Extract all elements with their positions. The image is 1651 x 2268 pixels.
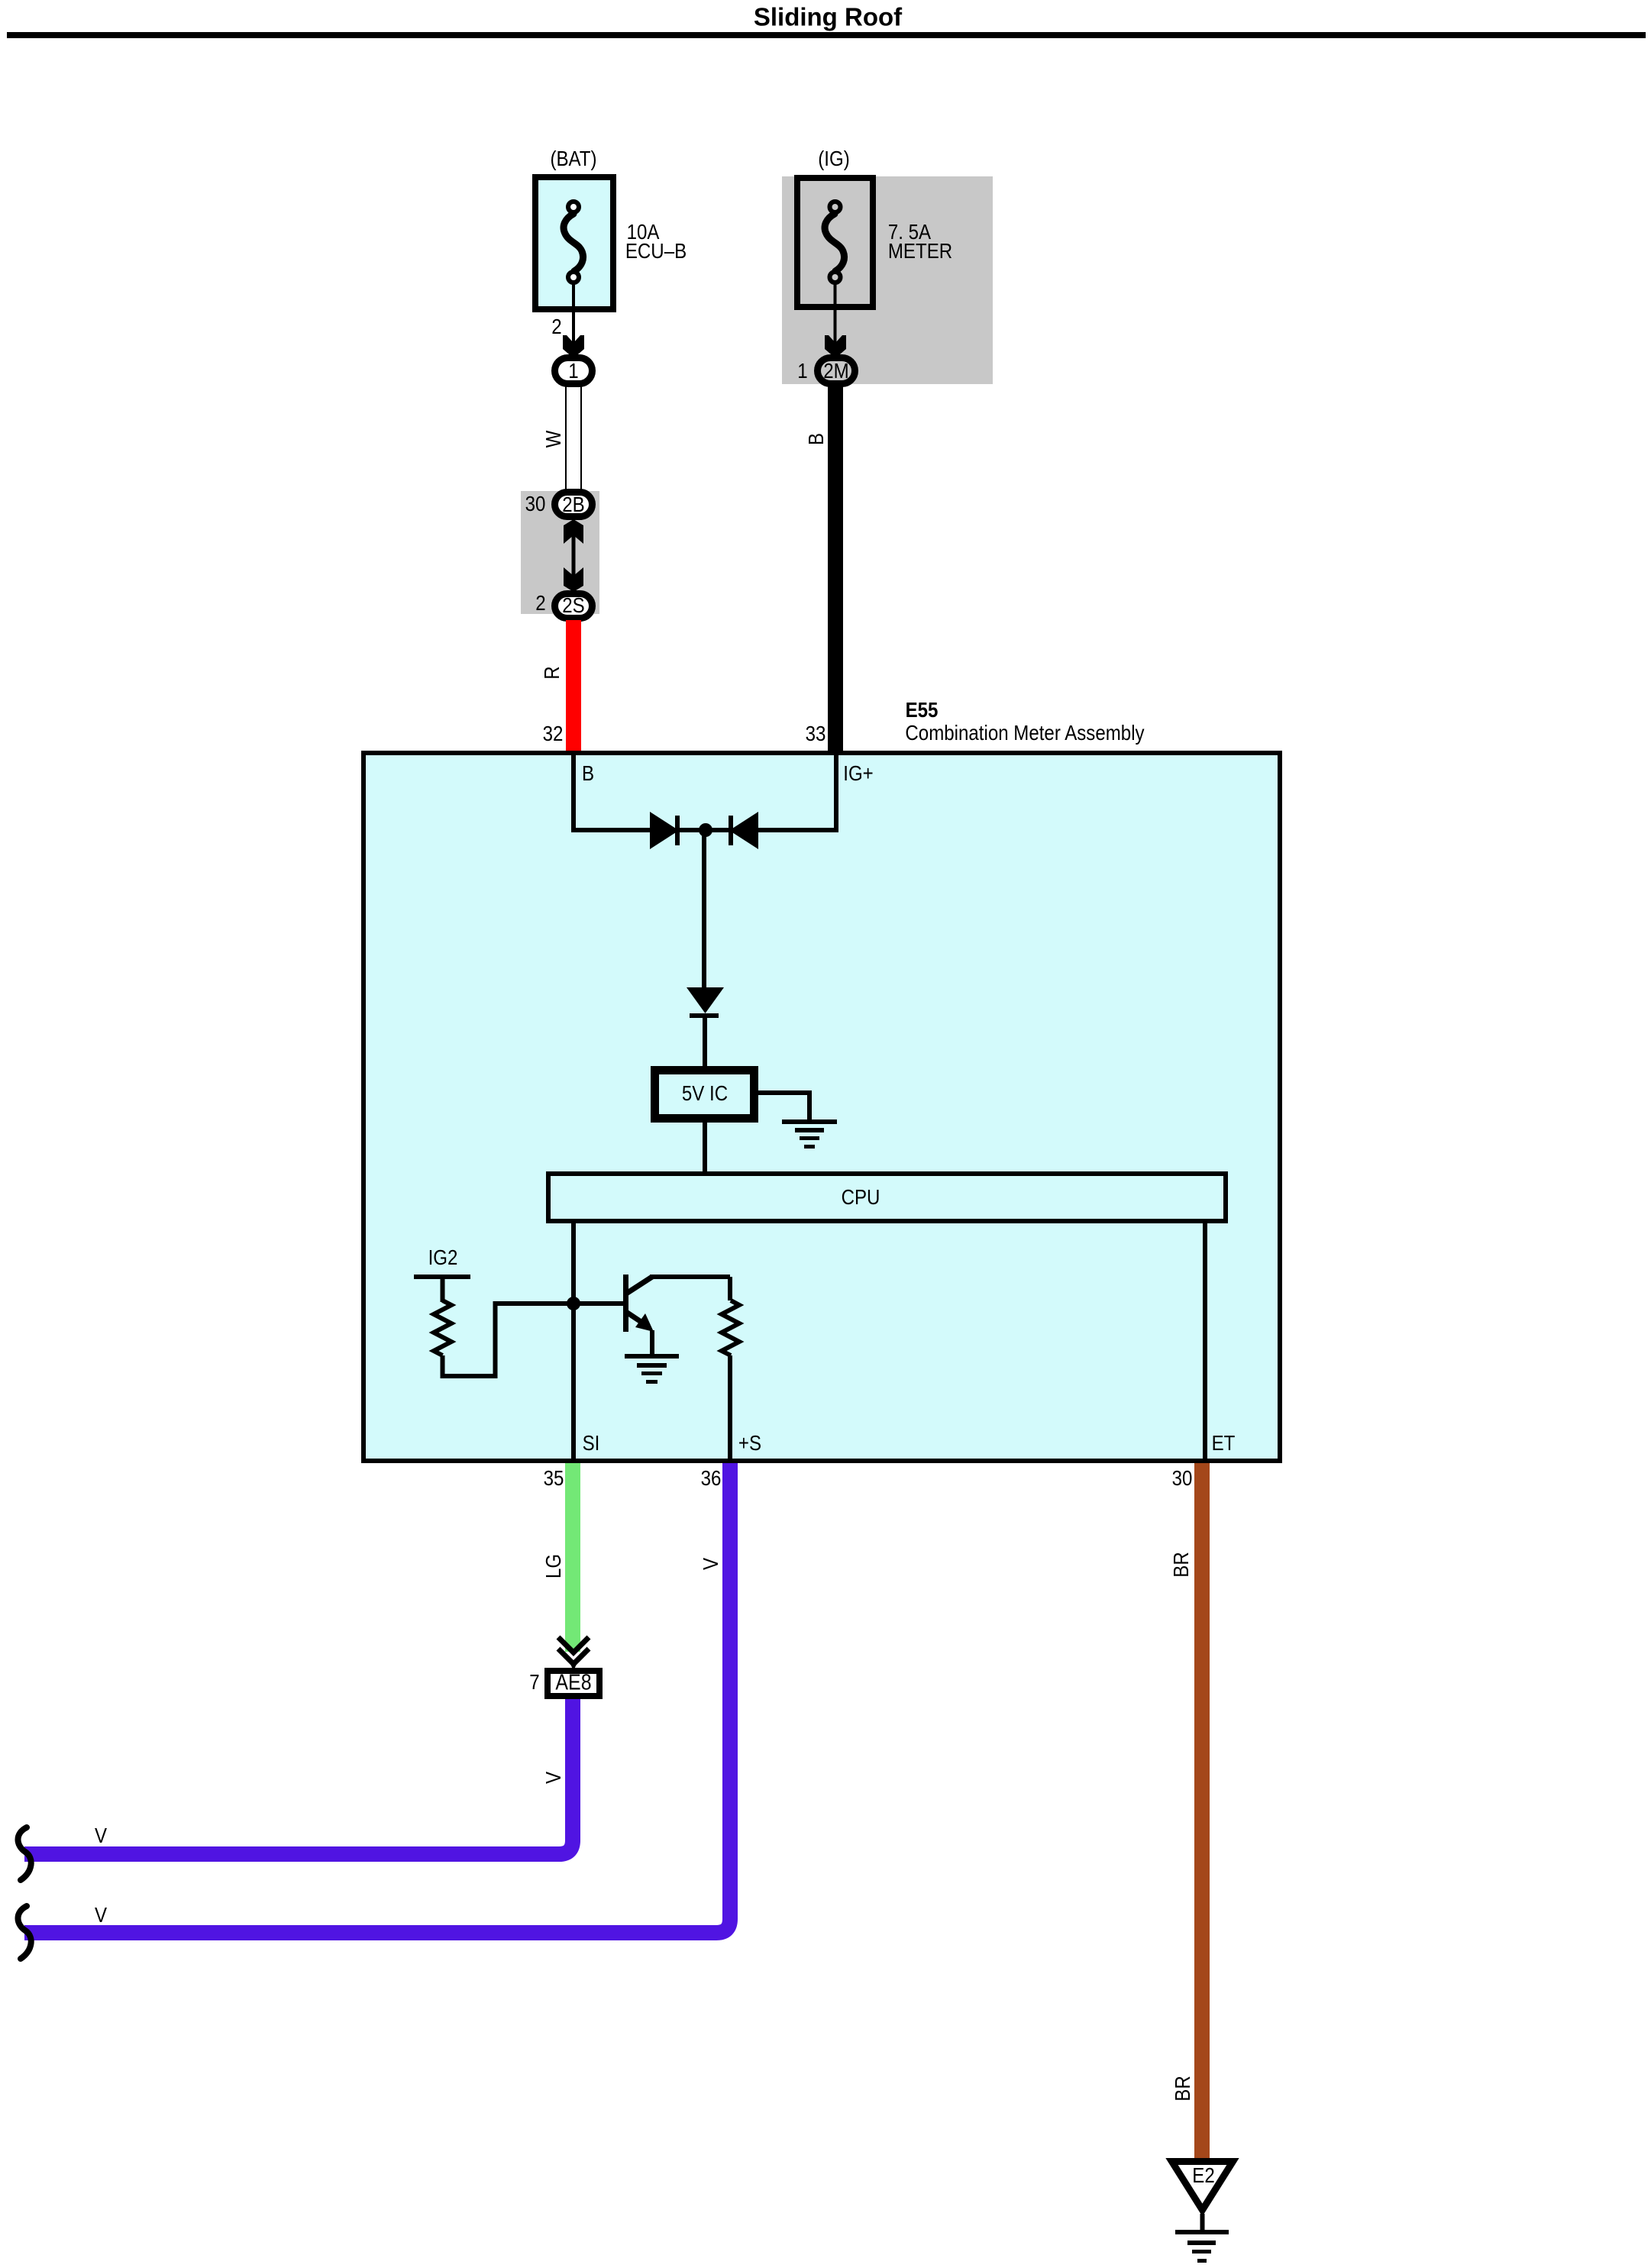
connector 2S oval [555, 594, 593, 619]
collector rail Q1 to R2 [650, 1275, 730, 1279]
ground G3 (E2) [1175, 2230, 1229, 2234]
wire color W (white) [543, 431, 564, 448]
name Combination Meter Assembly [905, 722, 1144, 744]
connector 1 oval [555, 358, 593, 384]
pin 7 of connector AE8 [529, 1672, 539, 1693]
ground point E2 triangle [1172, 2162, 1233, 2211]
pin name SI of E55 [583, 1433, 600, 1454]
pin 36 of E55 [701, 1468, 722, 1489]
arrow into connector 1 [563, 335, 584, 358]
wire color V on horizontal wire 1 [95, 1825, 107, 1846]
wire J1 to diode D3 [702, 830, 706, 988]
net IG2 [428, 1247, 458, 1268]
CPU box [548, 1174, 1226, 1221]
fuse F1 element [564, 214, 583, 271]
E55 Combination Meter Assembly box [363, 753, 1280, 1461]
5V IC box U1 [655, 1071, 754, 1119]
wire LG (light green) pin 35 to AE8 [565, 1463, 580, 1652]
wire W (white) connector 1 to 2B [565, 386, 567, 490]
label 5V IC [682, 1083, 728, 1104]
title rule [7, 32, 1646, 38]
pin 30 of connector 2B [525, 493, 546, 515]
5V IC ground lead [758, 1090, 809, 1095]
transistor Q1 [623, 1275, 628, 1332]
wire D3 to 5V IC [703, 1018, 707, 1069]
pin name +S of E55 [738, 1433, 761, 1454]
wire color V (violet) [543, 1772, 564, 1784]
wire color BR (brown) [1172, 2076, 1194, 2101]
node dot J2 [567, 1297, 580, 1310]
break squiggle wire 1 [18, 1827, 31, 1880]
fuse F2 (IG) 7.5A METER box [797, 178, 873, 307]
fuse F2 element [825, 214, 844, 271]
pin 32 of E55 [543, 723, 564, 745]
connector AE8 box [548, 1671, 599, 1696]
pin 2 of fuse F1 [551, 316, 561, 338]
wire R2 to pin 36 [728, 1355, 732, 1462]
connector 1 label [568, 360, 578, 382]
connector 2B label [562, 494, 584, 515]
pin 33 of E55 [806, 723, 826, 745]
wire color BR (brown) [1171, 1552, 1192, 1577]
pin 2 of connector 2S [535, 593, 545, 614]
name METER for fuse F2 [888, 241, 952, 262]
connector 2M label [823, 360, 848, 382]
pin 35 of E55 [544, 1468, 564, 1489]
title: Sliding Roof [754, 5, 902, 30]
pin 1 of connector 2M [797, 360, 807, 382]
node dot J1 [699, 823, 712, 837]
wire V (violet) pin 36 down then left [24, 1463, 730, 1933]
wire color V (violet) [700, 1558, 722, 1570]
label (IG) on fuse F2 [818, 148, 849, 170]
resistor R1 [434, 1300, 451, 1355]
pin 33 lead IG+ [834, 751, 838, 832]
resistor R2 [722, 1300, 739, 1355]
wire R (red) 2S to pin 32 [566, 620, 581, 753]
mating arrows 2B to 2S [564, 519, 583, 544]
wire fuse F2 to connector 2M [834, 280, 837, 344]
gray service box around IG fuse and 2M [782, 176, 993, 384]
wire color LG (light green) [543, 1554, 564, 1578]
base lead to Q1 [579, 1301, 623, 1306]
ground G2 (Q1 emitter) [625, 1354, 679, 1359]
ground G1 (5V IC) [782, 1119, 837, 1124]
ET line CPU to pin 30 [1203, 1223, 1207, 1462]
IG2 supply bar [414, 1275, 470, 1279]
diode D3 [687, 987, 724, 1013]
diode D1 [650, 812, 679, 849]
value 7.5A for fuse F2 [888, 221, 931, 243]
pin 32 lead B [571, 751, 576, 832]
wire color V on horizontal wire 2 [95, 1905, 107, 1926]
bus line between diodes [571, 828, 838, 832]
wire BR (brown) pin 30 to E2 [1194, 1463, 1210, 2158]
pin name ET of E55 [1212, 1433, 1236, 1454]
E2 stem [1200, 2214, 1205, 2230]
connector 2M oval [818, 358, 855, 384]
wire color B (black) [806, 433, 827, 445]
fuse F1 (BAT) 10A ECU-B box [535, 177, 613, 309]
connector 2S label [562, 595, 584, 616]
designator E55 [906, 699, 939, 721]
name ECU-B for fuse F1 [625, 241, 687, 262]
break squiggle wire 2 [18, 1906, 31, 1959]
SI line CPU to pin 35 [571, 1223, 576, 1462]
gray service box around 2B/2S [521, 491, 599, 614]
value 10A for fuse F1 [627, 221, 660, 243]
wire V (violet) AE8 down then left [24, 1699, 573, 1854]
emitter lead to ground [650, 1330, 654, 1354]
pin name IG+ of E55 [843, 763, 873, 784]
arrow into connector 2M [825, 335, 846, 358]
wire R1 to base node [443, 1304, 572, 1376]
connector 2B oval [555, 493, 593, 517]
diode D2 [729, 812, 758, 849]
pin name B of E55 [582, 763, 594, 784]
wire 5V IC to CPU [703, 1123, 707, 1174]
wire color R (red) [541, 666, 563, 679]
connector AE8 label [555, 1672, 591, 1695]
pin 30 of E55 [1172, 1468, 1193, 1489]
wire B (black) 2M to pin 33 [828, 386, 843, 753]
label (BAT) on fuse F1 [550, 148, 596, 170]
arrow chevrons into AE8 [558, 1637, 589, 1653]
wire fuse F1 to connector 1 [572, 280, 575, 344]
ground point E2 label [1192, 2165, 1214, 2186]
label CPU [842, 1187, 880, 1208]
